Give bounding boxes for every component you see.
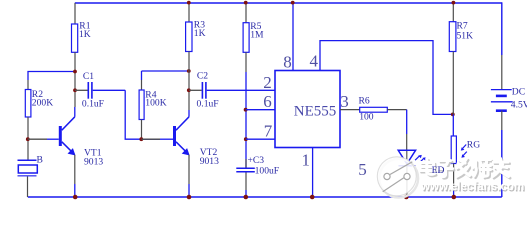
svg-text:5: 5 <box>358 160 367 179</box>
svg-text:1: 1 <box>302 151 311 170</box>
wire C1 to VT2 base <box>125 90 160 139</box>
label R2 value <box>32 89 53 109</box>
svg-text:www.elecfans.com: www.elecfans.com <box>420 180 524 193</box>
wire bottom ground rail <box>28 196 502 198</box>
svg-text:0.1uF: 0.1uF <box>82 99 104 110</box>
svg-text:1K: 1K <box>194 28 206 39</box>
LED diode <box>398 150 415 196</box>
pin 3 wire <box>340 109 360 111</box>
svg-text:RG: RG <box>467 139 480 150</box>
pin 1 wire <box>312 148 314 198</box>
photoresistor RG <box>451 136 456 197</box>
svg-text:6: 6 <box>263 92 272 111</box>
label R4 value <box>145 89 166 108</box>
battery DC <box>491 90 513 111</box>
resistor R7 <box>449 2 456 114</box>
svg-text:100K: 100K <box>145 97 166 108</box>
svg-text:NE555: NE555 <box>294 103 337 119</box>
node pin7 junction <box>244 137 248 141</box>
IC NE555 timer <box>275 71 340 148</box>
label DC value <box>511 87 527 111</box>
microphone B <box>18 160 38 197</box>
svg-text:100uF: 100uF <box>255 166 280 177</box>
svg-text:0.1uF: 0.1uF <box>197 98 219 109</box>
wire top power rail <box>75 2 502 4</box>
node R5 top rail junction <box>244 1 248 5</box>
label R5 value <box>250 21 264 41</box>
svg-text:B: B <box>37 155 43 166</box>
node R4 bottom junction <box>139 137 143 141</box>
wire R4 top to R3 <box>142 70 189 72</box>
wire battery bottom <box>501 130 503 197</box>
svg-text:4: 4 <box>310 52 319 71</box>
node pin8 rail junction <box>291 1 295 5</box>
watermark chinese text <box>420 159 510 179</box>
resistor R1 <box>72 3 78 107</box>
node pin6 junction <box>244 108 248 112</box>
svg-text:7: 7 <box>264 122 273 141</box>
wire pin7 <box>246 138 275 140</box>
label VT2 value <box>200 147 219 167</box>
node RG ground junction <box>452 195 457 200</box>
svg-text:3: 3 <box>340 92 349 111</box>
svg-text:R6: R6 <box>359 96 370 107</box>
svg-text:C2: C2 <box>197 71 208 82</box>
pin 4 wire <box>320 41 453 115</box>
capacitor C3 <box>236 159 255 197</box>
svg-text:ED: ED <box>432 165 445 176</box>
node VT1 emitter ground junction <box>73 195 78 200</box>
node R4-R3 junction <box>187 69 191 73</box>
svg-text:8: 8 <box>283 52 292 71</box>
transistor VT1 <box>28 107 75 197</box>
resistor R5 <box>243 3 249 72</box>
transistor VT2 <box>141 110 189 197</box>
wire battery top pin <box>501 55 503 90</box>
svg-text:4.5V: 4.5V <box>511 99 527 110</box>
wire R6 to LED <box>387 110 407 166</box>
node C3 ground junction <box>244 195 249 200</box>
svg-text:+C3: +C3 <box>248 155 265 166</box>
label R7 value <box>457 21 474 42</box>
label C2 value <box>197 71 219 110</box>
label C1 value <box>82 71 104 110</box>
svg-text:1K: 1K <box>79 29 91 40</box>
node R1-R2 junction <box>73 70 77 74</box>
node pin4-R7 junction <box>451 113 455 117</box>
label R6 value <box>359 96 374 123</box>
label VT1 value <box>84 148 103 168</box>
svg-text:51K: 51K <box>457 31 474 42</box>
resistor R3 <box>186 3 192 110</box>
pin 8 wire <box>292 2 294 70</box>
label R3 value <box>194 20 206 40</box>
node R7 top rail junction <box>452 1 456 5</box>
wire C2 to pin2 <box>207 89 275 91</box>
wire R5 column down <box>245 72 247 168</box>
node R3 top rail junction <box>187 1 191 5</box>
wire R7 to RG <box>452 114 454 136</box>
node R2-B-VT1 base junction <box>26 137 30 141</box>
svg-text:1M: 1M <box>250 30 264 41</box>
label C3 value <box>248 155 280 177</box>
resistor R6 <box>360 107 388 112</box>
resistor R4 <box>139 71 144 139</box>
wire battery top <box>501 2 503 55</box>
capacitor C1 <box>75 82 125 99</box>
label R1 value <box>79 21 91 40</box>
node pin1 ground junction <box>310 195 315 200</box>
resistor R2 <box>25 80 31 160</box>
watermark logo circle <box>377 157 418 198</box>
svg-text:2: 2 <box>263 73 272 92</box>
node C1 tap junction <box>73 88 77 92</box>
node C2 tap junction <box>187 88 191 92</box>
svg-text:C1: C1 <box>83 71 94 82</box>
LED light arrows <box>415 155 426 163</box>
node LED ground junction <box>404 195 409 200</box>
wire R1 bottom to R2 <box>28 72 75 81</box>
watermark url text <box>420 180 526 194</box>
wire pin6 <box>246 109 275 111</box>
node VT2 emitter ground junction <box>187 195 192 200</box>
RG light arrows <box>461 145 467 158</box>
capacitor C2 <box>189 82 206 99</box>
svg-text:9013: 9013 <box>200 156 219 167</box>
svg-text:200K: 200K <box>32 98 53 109</box>
wire battery bottom pin <box>501 111 503 130</box>
svg-text:DC: DC <box>512 87 525 98</box>
svg-text:100: 100 <box>359 112 374 123</box>
svg-text:9013: 9013 <box>84 157 103 168</box>
